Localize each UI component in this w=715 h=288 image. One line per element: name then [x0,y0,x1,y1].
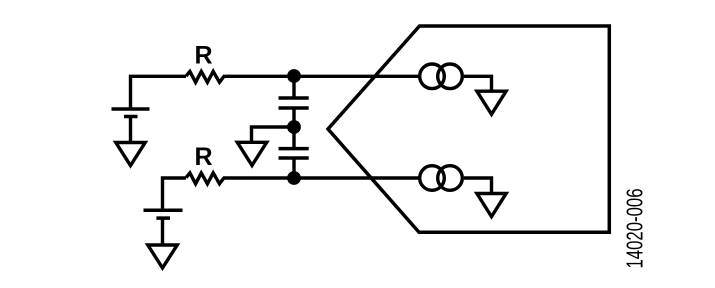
svg-text:R: R [194,143,212,171]
battery V2 short plate [156,216,170,220]
ground G4 [477,91,506,114]
ground G2 [148,245,177,268]
node N3 junction dot [287,171,301,185]
wire N2 to ground [252,127,295,143]
current source I1 right circle [438,64,463,89]
capacitor C2 bottom plate [279,156,309,160]
current source I2 left circle [420,166,445,191]
battery V1 long plate [112,107,150,111]
wire V2 to R (bottom-left corner) [163,178,187,209]
wire R2 to current source (bottom rail) [223,176,420,179]
wire V1 to ground [129,117,132,144]
resistor R2 [186,173,224,184]
current source I1 left circle [420,64,445,89]
wire N1 to C1 [292,76,295,98]
resistor R1 [186,71,224,82]
node N2 junction dot [287,120,301,134]
ground G5 [477,194,506,217]
battery V1 short plate [124,115,138,119]
capacitor C2 top plate [279,147,309,151]
node N1 junction dot [287,69,301,83]
wire C2 to N3 [292,158,295,178]
ground G1 [116,143,145,166]
battery V2 long plate [144,208,183,212]
wire I2 to ground [464,178,492,194]
amplifier U1 body [328,26,609,232]
wire C1 to C2 [292,108,295,149]
capacitor C1 bottom plate [279,106,309,110]
svg-text:14020-006: 14020-006 [621,189,647,269]
current source I2 right circle [438,166,463,191]
wire V1 to R (top-left corner) [131,76,187,108]
capacitor C1 top plate [279,96,309,100]
svg-text:R: R [194,42,212,70]
ground G3 [237,142,266,165]
wire R1 to current source (top rail) [223,75,420,78]
wire V2 to ground [161,218,164,245]
wire I1 to ground [464,76,492,91]
